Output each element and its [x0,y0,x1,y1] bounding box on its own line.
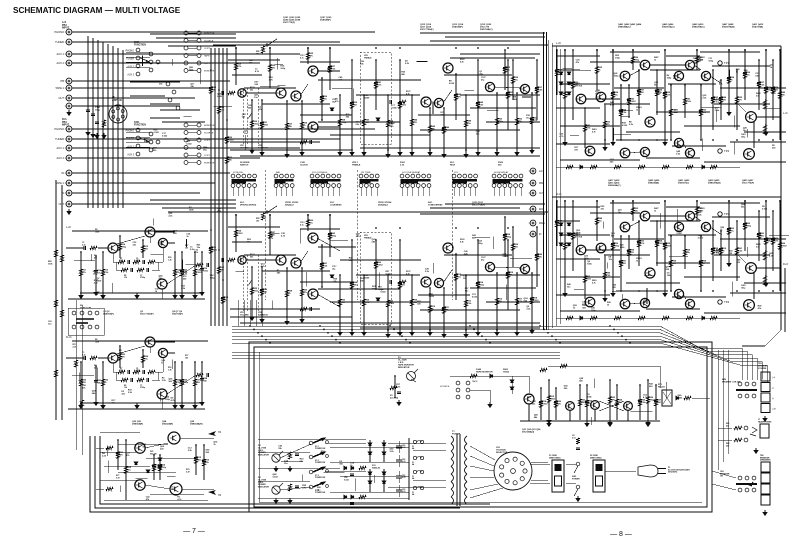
svg-text:(+)L: (+)L [772,377,775,379]
output arrow H2 [208,431,216,436]
wire interconnect [556,69,580,71]
svg-text:75k: 75k [120,370,123,372]
svg-text:R-ch: R-ch [66,335,72,339]
capacitor C [310,307,312,311]
wire +B rail [213,44,548,46]
wire interconnect [244,254,296,256]
wire interconnect [720,87,786,89]
wire stub [330,239,348,241]
svg-text:MONITOR: MONITOR [204,125,215,127]
diode D bias [567,243,570,246]
resistor R [669,109,672,116]
branch [329,215,331,257]
svg-text:TAPE 1: TAPE 1 [55,181,64,185]
capacitor C [131,268,133,272]
svg-text:2SC1775A(F): 2SC1775A(F) [420,28,434,31]
branch [670,85,672,140]
capacitor C [131,378,133,382]
wire interconnect [560,276,620,278]
diode D bias [567,233,570,236]
resistor R [555,220,558,227]
svg-text:Rch: Rch [539,209,544,211]
capacitor C [454,275,458,277]
svg-text:INPUT: INPUT [62,124,70,127]
wire [167,375,196,394]
wire [694,216,701,221]
svg-text:HEADPHONES: HEADPHONES [758,420,772,423]
branch [596,50,598,90]
diode D [490,374,493,377]
junction [772,139,774,141]
capacitor C [94,271,98,273]
breaker arrow [745,482,755,487]
contact [738,476,742,480]
resistor R1 input [90,356,97,359]
transistor Q drv E [640,298,649,307]
wire to plug [605,470,636,472]
transistor Q out B [744,300,755,311]
svg-text:L-ch: L-ch [556,41,562,45]
branch [351,240,353,330]
junction [257,332,259,334]
diode D [702,165,705,168]
wire [585,98,620,100]
branch [102,362,104,403]
wire L out down [780,117,782,330]
svg-text:Q31 Q32 Q33 Q34: Q31 Q32 Q33 Q34 [522,428,541,431]
wire interconnect [556,143,610,145]
wire interconnect [230,141,320,143]
resistor R [410,119,413,126]
wire stub [401,188,403,197]
branch [620,236,622,291]
wire [317,126,340,128]
wire stub [563,68,572,70]
branch [455,74,457,120]
junction [307,214,309,216]
resistor R [571,233,574,240]
junction [251,149,253,151]
branch [612,201,614,291]
svg-text:150: 150 [185,247,188,249]
branch [387,275,389,332]
ground [764,281,768,286]
junction [728,49,730,51]
transistor Q drv B [674,71,683,80]
svg-text:100p: 100p [506,237,512,239]
resistor R snubber [359,495,366,498]
resistor R [101,379,104,386]
wire interconnect [704,161,786,163]
diode D clip [376,118,379,121]
diode D bias [567,92,570,95]
branch [455,254,457,300]
wire stub [574,289,584,291]
svg-text:150: 150 [185,357,188,359]
ground [464,152,468,157]
junction [375,227,377,229]
wire interconnect [318,121,400,123]
wire interconnect [556,107,600,109]
wire interconnect [720,238,786,240]
resistor R [158,464,161,471]
wire stub [96,367,98,380]
resistor R [106,446,113,449]
wire selector [470,456,494,466]
branch [779,201,781,291]
resistor R [217,107,220,114]
junction [401,335,403,337]
test point TP3 [718,212,722,216]
wire [145,485,170,489]
wire left bus [61,185,63,420]
wire output mesh [104,499,208,501]
diode rectifier diode [382,481,385,484]
resistor R [133,260,140,263]
capacitor C [398,283,402,285]
resistor R [442,127,445,134]
branch [399,60,401,150]
branch [638,70,640,115]
capacitor C [655,90,659,92]
transistor Q diff 2 [596,243,606,253]
junction [405,339,407,341]
wire from jack [72,97,195,99]
junction [596,200,598,202]
resistor R [495,298,498,305]
resistor R [209,87,212,94]
junction [339,342,341,344]
wire stub [275,188,277,197]
capacitor C [571,83,575,85]
transistor Q tone 2 [434,278,443,287]
wire interconnect [360,327,540,329]
junction [564,200,566,202]
svg-text:(SWITCHED): (SWITCHED) [590,457,602,459]
wire interconnect [244,87,296,89]
capacitor C [555,221,559,223]
wire [188,55,197,57]
capacitor C [295,486,299,488]
junction [547,332,549,334]
contact [72,325,76,329]
branch [119,346,121,368]
ground [102,133,106,138]
input jack J3 AUX 1 [65,51,72,57]
contact [752,488,756,492]
resistor R [338,299,341,306]
dashed linkage [242,88,244,145]
svg-text:0.022: 0.022 [344,479,349,481]
ground [603,296,607,301]
svg-text:Q113 Q114: Q113 Q114 [452,23,464,26]
svg-text:COPY: COPY [204,140,211,142]
resistor R [699,109,702,116]
diode D6 [344,495,347,498]
capacitor C [530,118,534,120]
wire center bus [559,49,561,324]
wire [116,379,121,381]
wire right bus [727,350,729,454]
svg-text:OUT: OUT [59,202,65,206]
wire stub [360,188,362,197]
svg-text:SELECTOR: SELECTOR [496,452,508,454]
junction [604,290,606,292]
wire [66,247,84,249]
wire switch feed [168,45,236,47]
wire interconnect [556,258,600,260]
wire PSU rail [330,461,409,463]
wire [430,207,520,209]
wire interconnect [606,103,650,105]
capacitor C [194,458,198,460]
resistor R bottom row [638,165,645,168]
power supply boundary box inner [254,347,707,507]
resistor R [398,102,401,109]
switch bank S2 MODE [231,174,256,187]
transistor Q drv A [640,211,650,221]
wire mid bus [232,343,767,383]
wire ground rail [80,402,200,404]
transistor Q1 phono input [108,353,118,363]
voltage selector plug VS-240E [494,452,532,490]
wire [161,399,163,409]
switch bank VOL [452,174,477,187]
junction [465,329,467,331]
wire [126,146,150,148]
svg-text:100p: 100p [95,110,101,112]
junction [261,335,263,337]
wire interconnect [590,212,640,214]
wire stub [359,277,361,288]
wire selector [470,477,494,478]
transistor Q26 output [170,483,182,495]
wire [154,341,175,343]
diode D bias [559,82,562,85]
junction [269,47,271,49]
wire from jack [72,172,230,174]
wire [718,427,732,429]
branch [556,50,558,95]
branch [572,50,574,120]
wire stub [300,229,302,243]
branch [609,380,611,420]
wire mid bus [232,340,762,380]
branch [496,93,498,150]
wire selector out [531,461,548,463]
ground [476,150,480,155]
resistor R [193,269,196,276]
wire stub [323,471,344,473]
ground [91,132,95,137]
branch [584,259,586,299]
wire [683,294,686,299]
ground [101,293,105,298]
wire bottom rail [68,298,205,300]
junction [351,329,353,331]
svg-text:OUT: OUT [59,96,65,100]
wire stub [311,188,313,197]
wire stub [493,237,495,250]
wire interconnect [646,157,700,159]
resistor R [735,248,738,255]
branch [684,236,686,269]
wire interconnect [240,322,540,324]
wire [712,484,736,490]
svg-text:Q421 Q422: Q421 Q422 [678,179,690,182]
svg-text:100p: 100p [210,277,215,279]
wire bus 2 [232,357,560,359]
wire interconnect [666,206,700,208]
wire stub [732,281,734,296]
resistor R [268,232,271,239]
junction [399,227,401,229]
dashed linkage [246,255,248,312]
resistor R [410,299,413,306]
capacitor C [390,280,392,284]
branch [656,221,658,266]
capacitor cluster [88,100,93,128]
resistor R bottom row [614,316,621,319]
contact [456,381,460,385]
svg-text:0.022: 0.022 [429,296,435,298]
wire center bus [547,40,549,330]
svg-text:(+)R: (+)R [772,409,776,411]
junction [489,342,491,344]
transistor Q flat 1 [276,88,286,98]
wire bottom rail [556,317,740,319]
wire selector out [531,479,548,481]
wire bus vertical [117,48,119,208]
ground [611,291,615,296]
branch [712,70,714,130]
wire [149,237,151,243]
capacitor C [398,103,402,105]
wire output mesh [100,431,140,433]
transistor Q1 phono input [108,243,118,253]
transistor Q out A [746,263,757,274]
wire [66,357,84,359]
ground [95,133,99,138]
wire stub [669,255,688,257]
svg-text:TP2: TP2 [724,149,730,153]
branch [596,201,598,241]
wire interconnect [556,294,610,296]
resistor R [503,67,506,74]
capacitor C [202,460,206,462]
resistor R [148,260,155,263]
resistor R [695,57,698,64]
wire [167,352,175,354]
wire [188,62,197,64]
wire left bus [55,180,57,420]
contact [744,438,748,442]
capacitor C [350,103,354,105]
resistor R [757,82,760,89]
wire stub [702,107,721,109]
wire stub [520,188,522,197]
wire [157,262,159,270]
wire +B rail [213,211,548,213]
contact [738,382,742,386]
ground [67,209,71,214]
ground [274,466,278,471]
wire [746,368,748,380]
wire interconnect [444,254,512,256]
resistor R [118,354,121,361]
wire stub [465,90,474,92]
wire stub [185,263,199,265]
wire stub [458,188,460,197]
resistor R [637,240,640,247]
resistor R [576,438,579,444]
wire selector [470,466,494,471]
capacitor C [637,241,641,243]
input jack J10 TUNER [65,136,72,142]
svg-text:S5B2-40: S5B2-40 [372,466,381,469]
junction [779,200,781,202]
wire [75,300,77,450]
branch [584,108,586,148]
wire [96,488,104,490]
capacitor C [397,392,401,394]
svg-text:0.022: 0.022 [153,132,159,134]
wire [154,231,175,233]
svg-text:150k: 150k [401,105,407,107]
svg-text:FUNCTION: FUNCTION [134,45,146,47]
resistor R [571,82,574,89]
branch [779,50,781,140]
junction [772,290,774,292]
fuse box F2 FUSE [593,460,605,492]
wire interconnect [700,51,760,53]
wire interconnect [356,94,420,96]
wire PSU rail [340,475,409,477]
resistor R [743,72,746,79]
branch [174,252,176,293]
diode D thermal [158,466,161,469]
transistor QP2 protection [566,402,575,411]
branch [758,211,760,261]
svg-text:100p: 100p [584,258,589,260]
wire right bus [717,350,719,470]
svg-text:C1775A: C1775A [575,84,583,87]
power switch S7-3 [309,467,328,474]
branch [512,60,514,100]
capacitor C [506,93,510,95]
svg-text:2SC1775(F): 2SC1775(F) [283,22,295,24]
wire [155,261,163,263]
resistor R [540,368,547,371]
resistor R [583,125,586,132]
svg-text:TONE DEFEAT: TONE DEFEAT [428,204,443,207]
ground [608,420,612,425]
resistor R [727,77,730,84]
svg-text:R-ch: R-ch [556,192,562,196]
svg-text:AUX 2: AUX 2 [127,154,134,157]
wire stub [406,188,408,197]
svg-text:250k(B)x2: 250k(B)x2 [378,205,389,207]
junction [253,329,255,331]
wire right edge [780,46,782,170]
wire [629,70,640,76]
ground [530,328,534,333]
branch [465,95,467,152]
resistor R [300,307,307,310]
wire [246,259,276,261]
wire stub [493,188,495,197]
capacitor C [209,248,213,250]
